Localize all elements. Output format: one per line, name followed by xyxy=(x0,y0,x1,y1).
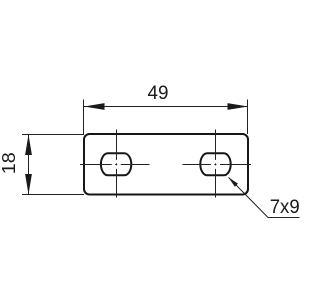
vertical centerline left slot xyxy=(116,130,118,198)
vertical centerline right slot xyxy=(215,130,217,198)
arrowhead 18 bottom xyxy=(25,174,32,195)
extension line 49 right xyxy=(247,100,249,135)
extension line 18 bottom xyxy=(22,194,84,196)
right slot xyxy=(200,153,230,175)
left slot xyxy=(101,153,131,175)
svg-text:7x9: 7x9 xyxy=(270,196,300,218)
svg-text:49: 49 xyxy=(148,83,169,104)
svg-text:18: 18 xyxy=(0,152,19,174)
leader line 7x9 xyxy=(229,177,300,217)
arrowhead 49 right xyxy=(228,103,249,110)
arrowhead 18 top xyxy=(25,135,32,156)
dimension line 18 xyxy=(28,135,30,195)
leader arrowhead xyxy=(228,177,238,187)
dimension line 49 xyxy=(84,106,248,108)
arrowhead 49 left xyxy=(84,103,105,110)
horizontal centerline left slot xyxy=(80,164,150,166)
extension line 49 left xyxy=(83,100,85,135)
extension line 18 top xyxy=(22,134,84,136)
plate outline xyxy=(84,134,248,195)
horizontal centerline right slot xyxy=(183,164,252,166)
